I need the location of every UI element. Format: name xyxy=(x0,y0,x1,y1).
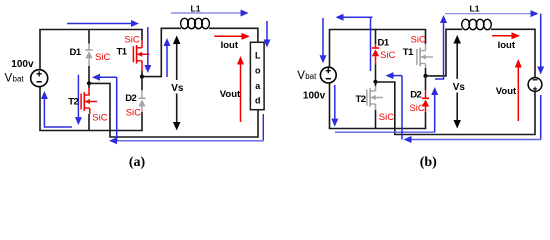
svg-text:SiC: SiC xyxy=(92,112,107,123)
svg-text:SiC: SiC xyxy=(95,52,110,63)
svg-text:T1: T1 xyxy=(403,47,414,58)
svg-text:(b): (b) xyxy=(420,155,437,170)
svg-text:V: V xyxy=(297,70,305,82)
svg-text:L: L xyxy=(255,51,261,61)
svg-text:V: V xyxy=(5,73,13,85)
svg-text:D2: D2 xyxy=(125,93,136,104)
svg-text:SiC: SiC xyxy=(126,107,141,118)
svg-text:Vs: Vs xyxy=(453,82,466,93)
svg-text:T2: T2 xyxy=(68,97,78,108)
svg-text:bat: bat xyxy=(13,75,25,84)
svg-text:(a): (a) xyxy=(129,155,146,170)
svg-text:100v: 100v xyxy=(11,59,34,70)
svg-text:D1: D1 xyxy=(70,47,82,58)
svg-text:d: d xyxy=(255,95,261,105)
svg-text:Iout: Iout xyxy=(221,40,239,51)
svg-text:SiC: SiC xyxy=(411,35,426,46)
svg-text:Vout: Vout xyxy=(220,89,241,100)
svg-text:SiC: SiC xyxy=(124,34,139,45)
svg-text:L1: L1 xyxy=(191,3,201,13)
svg-text:Vs: Vs xyxy=(171,83,184,94)
svg-text:D2: D2 xyxy=(410,90,421,101)
svg-text:bat: bat xyxy=(305,72,317,81)
svg-text:o: o xyxy=(255,66,261,76)
svg-text:D1: D1 xyxy=(378,38,390,49)
svg-text:T1: T1 xyxy=(117,47,128,58)
svg-text:SiC: SiC xyxy=(409,103,424,114)
svg-text:SiC: SiC xyxy=(380,50,395,61)
svg-text:Iout: Iout xyxy=(498,40,516,51)
svg-text:100v: 100v xyxy=(303,90,326,101)
svg-text:L1: L1 xyxy=(470,3,480,13)
svg-text:Vout: Vout xyxy=(496,86,517,97)
svg-text:SiC: SiC xyxy=(379,112,394,123)
svg-text:T2: T2 xyxy=(356,94,366,105)
